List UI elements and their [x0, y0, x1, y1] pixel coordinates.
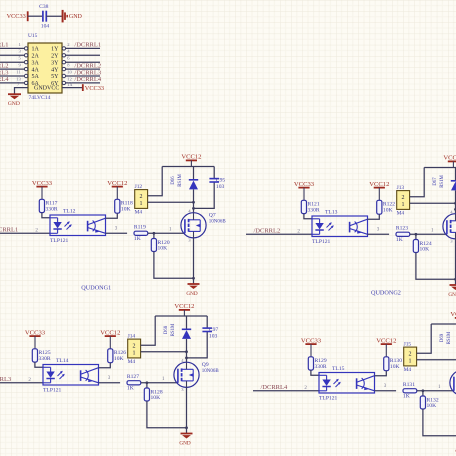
wire pullup to opto pin1 [35, 362, 43, 367]
power port VCC12 [443, 155, 456, 168]
power port VCC33 [25, 329, 46, 348]
svg-text:2: 2 [402, 195, 405, 201]
pin 8 (output 4Y) [62, 63, 100, 71]
svg-text:C95: C95 [216, 177, 226, 183]
svg-text:10K: 10K [390, 364, 400, 370]
svg-text:TL12: TL12 [63, 209, 76, 215]
junction drain / cap [185, 357, 188, 360]
power port VCC33 [301, 337, 322, 356]
junction gate node [422, 389, 425, 392]
power port VCC33 [294, 181, 315, 200]
power port VCC12 [100, 329, 120, 348]
svg-text:D69: D69 [440, 333, 445, 342]
svg-text:VCC: VCC [47, 86, 59, 92]
ground [448, 285, 456, 298]
pin 1 (input 1A) [0, 42, 28, 50]
junction gate node [415, 233, 418, 236]
wire gate pulldown [153, 233, 155, 238]
power port VCC12 [376, 337, 396, 356]
connector J15 M4 [404, 342, 417, 373]
pin 2 (output 1Y) [62, 42, 100, 50]
svg-text:2: 2 [133, 343, 136, 349]
wire opto emitter to gate [375, 390, 397, 392]
svg-text:TLP121: TLP121 [43, 388, 62, 394]
wire source to ground [193, 238, 195, 284]
pin 5 (input 3A) [0, 56, 28, 64]
wire opto emitter to gate [106, 232, 128, 234]
svg-text:VCC33: VCC33 [85, 85, 104, 92]
pin 3 (input 2A) [0, 49, 28, 57]
diode D69 RS1M [440, 331, 456, 347]
svg-text:RS1M: RS1M [171, 323, 176, 336]
ground [455, 442, 456, 455]
wire collector to opto pin4 [99, 363, 111, 368]
diode D66 RS1M [171, 173, 198, 189]
capacitor C95 103 [209, 177, 225, 190]
svg-text:VCC33: VCC33 [7, 13, 26, 20]
capacitor C38 104 [39, 4, 49, 30]
svg-text:GND: GND [8, 101, 20, 107]
wire J pin1 to drain [141, 351, 187, 353]
wire pulldown return [154, 252, 194, 279]
node QUDONG1 label [81, 284, 111, 291]
ground (C38) [63, 10, 83, 23]
svg-text:GND: GND [34, 86, 48, 92]
svg-text:GND: GND [179, 441, 190, 447]
transistor Q8 [443, 210, 456, 244]
svg-text:GND: GND [186, 291, 197, 297]
ground (U15) [8, 94, 21, 107]
wire gate pulldown [415, 234, 417, 239]
svg-text:4A: 4A [32, 67, 40, 73]
svg-text:10N06B: 10N06B [202, 369, 220, 374]
power port VCC12 [450, 311, 456, 324]
diode D67 RS1M [433, 174, 456, 190]
junction gate node [153, 232, 156, 235]
wire C38 to GND [46, 15, 62, 17]
svg-text:1K: 1K [403, 393, 410, 399]
junction source node [192, 277, 195, 280]
svg-text:5Y: 5Y [51, 74, 59, 80]
svg-text:TL14: TL14 [56, 358, 69, 364]
svg-text:330R: 330R [315, 364, 327, 370]
optocoupler TL12 TLP121 [50, 209, 106, 245]
svg-text:TLP121: TLP121 [312, 239, 331, 245]
node /DCRRL4 [261, 384, 288, 391]
wire J pin1 to drain [417, 359, 456, 361]
svg-text:J15: J15 [404, 342, 412, 348]
pin 7 GND wire [15, 83, 29, 94]
wire pulldown return [416, 253, 456, 280]
node /DCRRL2 (left) [0, 62, 9, 69]
wire gate pulldown [146, 383, 148, 388]
node QUDONG2 label [371, 289, 401, 296]
wire gate pulldown [422, 391, 424, 396]
svg-text:QUDONG2: QUDONG2 [371, 289, 401, 296]
transistor Q7 10N06B [181, 209, 227, 243]
junction drain / J1 [192, 201, 195, 204]
svg-text:103: 103 [209, 334, 218, 340]
svg-text:R127: R127 [127, 374, 139, 380]
wire J pin1 to drain [148, 201, 194, 203]
pin 6 (output 3Y) [62, 56, 100, 64]
connector J14 M4 [128, 334, 141, 365]
svg-text:4Y: 4Y [51, 67, 59, 73]
wire opto emitter to gate [368, 233, 390, 235]
wire J pin2 to VCC12 rail [148, 167, 163, 196]
power port VCC33 [32, 180, 53, 199]
resistor R125 330R [32, 349, 51, 362]
svg-text:/DCRRL1: /DCRRL1 [0, 226, 18, 233]
svg-text:C97: C97 [209, 327, 219, 333]
svg-text:/DCRRL4: /DCRRL4 [74, 76, 101, 83]
svg-text:10K: 10K [427, 403, 437, 409]
svg-text:D67: D67 [433, 177, 438, 186]
wire input [253, 386, 319, 391]
junction gate node [146, 381, 149, 384]
ground [186, 284, 199, 297]
resistor R130 10K [384, 357, 403, 371]
svg-text:1K: 1K [134, 236, 141, 242]
pin 4 (output 2Y) [62, 49, 100, 57]
svg-text:330R: 330R [308, 207, 320, 213]
wire VCC12 rail [162, 166, 214, 168]
pin 10 (output 5Y) [62, 69, 100, 77]
wire pullup to opto pin1 [311, 370, 319, 375]
connector J13 M4 [397, 185, 410, 216]
wire cap column [187, 316, 208, 358]
node /DCRRL1 [0, 226, 18, 233]
diode D68 RS1M [164, 323, 191, 339]
svg-text:/DCRRL1: /DCRRL1 [74, 42, 101, 49]
svg-text:M4: M4 [397, 211, 405, 217]
connector J12 M4 [135, 184, 148, 215]
wire gate [417, 385, 454, 391]
svg-text:RS1M: RS1M [440, 174, 445, 187]
svg-text:R131: R131 [403, 382, 415, 388]
wire opto emitter to gate [99, 382, 121, 384]
svg-text:3A: 3A [32, 60, 40, 66]
resistor R132 10K [420, 396, 439, 409]
svg-text:RS1M: RS1M [178, 173, 183, 186]
wire gate [410, 229, 447, 235]
optocoupler TL14 TLP121 [43, 358, 99, 394]
wire J pin1 to drain [410, 202, 456, 204]
svg-text:10K: 10K [151, 395, 161, 401]
power port VCC33 (U15) [83, 84, 104, 92]
svg-text:1A: 1A [32, 47, 40, 53]
svg-text:D68: D68 [164, 325, 169, 334]
node /DCRRL1 (left) [0, 42, 9, 49]
node /DCRRL1 (right) [74, 42, 101, 49]
wire input [0, 228, 50, 233]
svg-text:14: 14 [67, 83, 73, 88]
resistor R120 10K [151, 239, 170, 252]
svg-text:RS1M: RS1M [447, 331, 452, 344]
wire input [246, 229, 312, 234]
svg-text:1Y: 1Y [51, 47, 59, 53]
svg-text:/DCRRL4: /DCRRL4 [0, 76, 9, 83]
op-amp U15 74LVC14 body [28, 33, 62, 101]
wire VCC12 rail [431, 323, 456, 325]
svg-text:QUDONG1: QUDONG1 [81, 284, 111, 291]
wire J pin2 to VCC12 rail [417, 324, 432, 353]
wire pulldown return [423, 409, 456, 436]
wire pullup to opto pin1 [42, 213, 50, 218]
svg-text:TLP121: TLP121 [50, 238, 69, 244]
svg-text:GND: GND [448, 292, 456, 298]
resistor R119 1K [134, 224, 148, 242]
resistor R123 1K [396, 225, 410, 243]
wire gate [148, 228, 185, 234]
svg-text:M4: M4 [404, 367, 412, 373]
resistor R124 10K [413, 240, 432, 253]
capacitor C97 103 [202, 327, 218, 340]
wire VCC12 rail [424, 167, 456, 169]
svg-text:11: 11 [16, 69, 21, 74]
svg-text:1: 1 [409, 359, 412, 365]
wire source to ground [455, 239, 456, 285]
junction drain / cap [454, 208, 456, 211]
svg-text:/DCRRL1: /DCRRL1 [0, 42, 9, 49]
svg-text:10K: 10K [121, 206, 131, 212]
node /DCRRL2 (right) [74, 62, 101, 69]
ground [179, 434, 192, 447]
svg-text:330R: 330R [39, 356, 51, 362]
svg-text:2: 2 [409, 351, 412, 357]
svg-text:2: 2 [140, 194, 143, 200]
svg-text:J14: J14 [128, 334, 136, 340]
power port VCC12 [181, 154, 201, 167]
resistor R117 330R [39, 199, 58, 212]
junction source node [185, 426, 188, 429]
optocoupler TL15 TLP121 [319, 366, 375, 402]
resistor R126 10K [108, 349, 127, 363]
svg-text:GND: GND [69, 14, 83, 20]
wire collector to opto pin4 [368, 214, 380, 219]
svg-text:104: 104 [41, 24, 50, 30]
svg-text:R119: R119 [134, 224, 146, 230]
wire J pin2 to VCC12 rail [141, 316, 156, 345]
svg-text:J12: J12 [135, 184, 143, 190]
svg-text:103: 103 [216, 184, 225, 190]
wire diode column [193, 167, 195, 213]
svg-text:M4: M4 [135, 210, 143, 216]
svg-text:/DCRRL2: /DCRRL2 [254, 227, 281, 234]
svg-text:1: 1 [133, 351, 136, 357]
node /DCRRL4 (right) [74, 76, 101, 83]
svg-text:2Y: 2Y [51, 54, 59, 60]
wire VCC12 rail [155, 315, 207, 317]
svg-text:Q7: Q7 [209, 212, 216, 218]
svg-text:TLP121: TLP121 [319, 396, 338, 402]
svg-text:5A: 5A [32, 74, 40, 80]
svg-text:330R: 330R [46, 206, 58, 212]
wire input [0, 378, 43, 383]
wire diode column [186, 316, 188, 362]
svg-text:TL13: TL13 [325, 210, 338, 216]
resistor R122 10K [377, 200, 396, 214]
junction drain / J1 [185, 350, 188, 353]
junction drain / J1 [454, 202, 456, 205]
svg-text:10N06B: 10N06B [209, 219, 227, 224]
svg-text:R123: R123 [396, 225, 408, 231]
wire J pin2 to VCC12 rail [410, 168, 425, 197]
svg-text:3Y: 3Y [51, 60, 59, 66]
pin 9 (input 4A) [0, 63, 28, 71]
pin 13 (input 6A) [0, 76, 28, 84]
pin 14 VCC wire [62, 83, 83, 88]
wire gate [141, 377, 178, 383]
svg-text:/DCRRL3: /DCRRL3 [0, 376, 11, 383]
svg-text:1: 1 [402, 202, 405, 208]
svg-text:Q9: Q9 [202, 362, 209, 368]
pin 12 (output 6Y) [62, 76, 100, 84]
svg-text:1: 1 [140, 201, 143, 207]
svg-text:10: 10 [67, 69, 72, 74]
svg-text:D66: D66 [171, 176, 176, 185]
resistor R127 1K [127, 374, 141, 392]
svg-text:74LVC14: 74LVC14 [29, 95, 51, 101]
resistor R131 1K [403, 382, 417, 400]
junction drain / cap [192, 207, 195, 210]
power port VCC12 [107, 180, 127, 199]
node /DCRRL4 (left) [0, 76, 9, 83]
node /DCRRL3 (left) [0, 69, 9, 76]
svg-text:10K: 10K [158, 246, 168, 252]
transistor Q9 10N06B [174, 358, 220, 392]
svg-text:J13: J13 [397, 185, 405, 191]
svg-text:1K: 1K [396, 237, 403, 243]
node /DCRRL3 (right) [74, 69, 101, 76]
resistor R121 330R [301, 200, 320, 213]
svg-text:M4: M4 [128, 359, 136, 365]
resistor R128 10K [144, 388, 163, 401]
wire pulldown return [147, 401, 187, 428]
node /DCRRL2 [254, 227, 281, 234]
wire diode column [455, 168, 456, 214]
svg-text:10K: 10K [114, 356, 124, 362]
svg-text:1K: 1K [127, 385, 134, 391]
svg-text:12: 12 [67, 76, 72, 81]
pin 11 (input 5A) [0, 69, 28, 77]
power port VCC12 [369, 181, 389, 200]
svg-text:/DCRRL4: /DCRRL4 [261, 384, 288, 391]
wire collector to opto pin4 [375, 371, 387, 376]
power port VCC33 (C38) [7, 11, 28, 21]
svg-text:C38: C38 [39, 4, 49, 10]
wire source to ground [186, 387, 188, 433]
svg-text:13: 13 [16, 76, 21, 81]
svg-text:TL15: TL15 [332, 366, 345, 372]
resistor R118 10K [115, 199, 133, 213]
node /DCRRL3 [0, 376, 11, 383]
wire pullup to opto pin1 [304, 214, 312, 219]
resistor R129 330R [308, 357, 327, 370]
svg-text:10K: 10K [420, 247, 430, 253]
svg-text:U15: U15 [28, 33, 38, 39]
transistor Q10 [450, 366, 456, 400]
svg-text:2A: 2A [32, 54, 40, 60]
wire cap column [194, 167, 215, 209]
svg-text:10K: 10K [383, 207, 393, 213]
power port VCC12 [174, 303, 194, 316]
wire collector to opto pin4 [106, 213, 118, 218]
optocoupler TL13 TLP121 [312, 210, 368, 246]
junction source node [454, 278, 456, 281]
wire VCC33 to C38 [28, 15, 42, 17]
